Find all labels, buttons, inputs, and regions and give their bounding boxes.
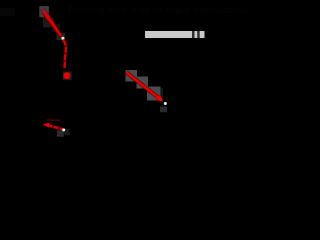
red end dot A xyxy=(64,72,71,79)
faint label box top-left xyxy=(0,8,15,16)
red route curve A xyxy=(63,40,66,69)
svg-text:Przebieg trasy drogi na mapie: Przebieg trasy drogi na mapie wojewodztw… xyxy=(68,5,248,15)
scale bar notch 1 xyxy=(192,31,195,38)
city square B2 xyxy=(137,77,149,89)
red arrow C shaft xyxy=(48,125,63,129)
city square A2b xyxy=(52,24,60,32)
city square B1 xyxy=(126,70,138,82)
city dot C xyxy=(62,128,65,131)
red arrow A wedge xyxy=(41,8,63,37)
red arrow C shaft halo xyxy=(48,125,63,129)
scale bar xyxy=(145,31,205,38)
red route curve A underlay xyxy=(63,40,66,69)
red arrow B shaft xyxy=(127,73,159,98)
dark red road C xyxy=(47,119,60,122)
city square A3 xyxy=(57,33,66,40)
city square below dot C xyxy=(57,130,64,137)
city square below dot B xyxy=(160,107,167,113)
red arrow B shaft halo xyxy=(127,73,159,98)
scale bar notch 2 xyxy=(197,31,200,38)
faint square behind blob A xyxy=(63,71,72,79)
city square B3 xyxy=(147,87,161,101)
faint square right of dot C xyxy=(64,129,70,136)
faint strip right of B3 xyxy=(161,88,163,100)
city square A2 xyxy=(43,18,54,28)
city dot A xyxy=(61,37,64,40)
city dot B xyxy=(164,102,167,105)
red arrow B head xyxy=(155,94,163,101)
city square A1 overlay xyxy=(39,6,49,13)
red arrow C head xyxy=(43,123,50,128)
city square A1 xyxy=(39,6,49,17)
